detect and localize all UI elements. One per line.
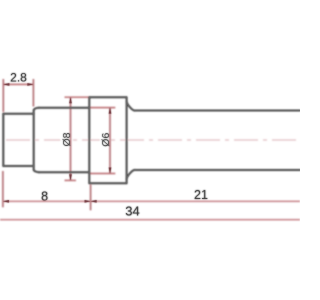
ext line left of 2.8: [2, 79, 4, 112]
middle bottom edge overlay: [39, 171, 90, 173]
fillet stub-bottom overlay: [34, 170, 39, 173]
dimension Ø8: [65, 97, 90, 180]
shaft bottom edge: [135, 169, 300, 171]
svg-text:34: 34: [125, 204, 139, 219]
fillet stub-bottom: [34, 170, 39, 173]
arrow 8 right: [85, 200, 91, 203]
arrows crisp overlay: [3, 83, 111, 203]
shaft top edge overlay: [135, 110, 300, 112]
flange bottom edge overlay: [89, 182, 126, 184]
arrow 2.8 right overlay: [27, 83, 33, 86]
ext line Ø8 top: [65, 96, 90, 98]
dimension chain 8 / 21: [3, 171, 91, 210]
svg-text:Ø6: Ø6: [100, 133, 112, 147]
dimension 2.8: [3, 79, 33, 112]
stub top edge overlay: [3, 113, 33, 115]
centerline mask under Ø8 label: [61, 132, 71, 147]
shaft top edge: [135, 110, 300, 112]
fillet flange-shaft top overlay: [127, 101, 135, 110]
arrow 2.8 right: [27, 83, 33, 86]
fillet flange-shaft top: [127, 101, 135, 110]
ext line Ø8 bottom: [65, 179, 77, 181]
svg-text:2.8: 2.8: [10, 71, 27, 85]
dim line 8 and 21: [3, 200, 300, 202]
arrow 2.8 left overlay: [3, 83, 9, 86]
step face overlay: [33, 111, 35, 170]
ext line chain middle: [90, 185, 92, 211]
step face: [33, 111, 35, 170]
dimension Ø6: [90, 108, 115, 174]
flange right edge: [126, 97, 128, 183]
stub top edge: [3, 113, 33, 115]
arrow Ø8 up overlay: [69, 97, 72, 103]
flange left edge overlay: [88, 97, 90, 183]
stub left edge overlay: [2, 114, 4, 166]
arrow Ø6 up overlay: [109, 108, 112, 114]
stub bottom edge overlay: [3, 165, 33, 167]
middle section top edge: [39, 107, 90, 109]
dim line 2.8: [3, 83, 33, 85]
shaft bottom edge overlay: [135, 169, 300, 171]
flange top edge overlay: [89, 96, 126, 98]
centerline: [6, 139, 300, 141]
svg-text:Ø8: Ø8: [61, 132, 73, 146]
arrow Ø8 down: [69, 174, 72, 180]
arrow Ø6 down: [109, 168, 112, 174]
svg-text:8: 8: [41, 190, 48, 204]
arrow 8 left: [3, 200, 9, 203]
part outline crisp overlay: [3, 97, 300, 183]
crisp overlay layer: [3, 71, 300, 219]
ext line Ø6 top: [90, 107, 115, 109]
dim line Ø6: [109, 108, 111, 174]
flange bottom edge: [89, 182, 126, 184]
fillet flange-shaft bottom: [127, 170, 135, 179]
ext line chain left: [2, 171, 4, 207]
fillet stub-top: [34, 108, 39, 111]
flange top edge: [89, 96, 126, 98]
svg-text:21: 21: [194, 188, 208, 202]
part outline blurred base: [3, 97, 300, 183]
middle section bottom edge: [39, 171, 90, 173]
arrow 2.8 left: [3, 83, 9, 86]
stub left edge: [2, 114, 4, 166]
flange right edge overlay: [126, 97, 128, 183]
arrow 21 left overlay: [91, 200, 97, 203]
fillet stub-top overlay: [34, 108, 39, 111]
fillet flange-shaft bottom overlay: [127, 170, 135, 179]
dimension 34 line: [0, 219, 300, 221]
centerline mask under Ø6 label: [100, 132, 109, 147]
ext line Ø6 bottom: [90, 173, 115, 175]
arrow Ø8 down overlay: [69, 174, 72, 180]
arrow 8 left overlay: [3, 200, 9, 203]
middle top edge overlay: [39, 107, 90, 109]
arrow Ø6 down overlay: [109, 168, 112, 174]
arrow 8 right overlay: [85, 200, 91, 203]
flange left edge: [88, 97, 90, 183]
arrow Ø6 up: [109, 108, 112, 114]
dim line Ø8: [70, 97, 72, 180]
stub bottom edge: [3, 165, 33, 167]
arrow Ø8 up: [69, 97, 72, 103]
arrow 21 left: [91, 200, 97, 203]
ext line right of 2.8: [32, 79, 34, 107]
